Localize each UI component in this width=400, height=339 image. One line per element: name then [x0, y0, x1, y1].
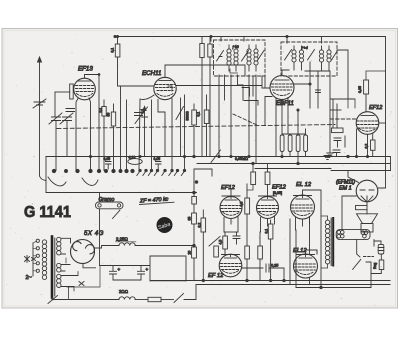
svg-text:EF12: EF12 [221, 185, 236, 191]
capacitor C10 in box [106, 162, 112, 170]
tube EF12 cathode arc [359, 129, 376, 132]
heater wires pair [66, 258, 100, 287]
junction dots misc [89, 35, 368, 164]
wire R15b [267, 164, 269, 197]
mains selector rail [32, 243, 34, 276]
tube EF12 AF1 grid bar [222, 190, 240, 199]
wire R16 [202, 210, 204, 281]
capacitor C16 padder [135, 113, 143, 116]
grid cap EF12 AF1 feed [247, 185, 253, 191]
electrolytic capacitor C7 [296, 135, 300, 152]
resistor R15b [265, 172, 270, 185]
svg-text:0,1: 0,1 [197, 112, 201, 117]
resistor R2 [111, 112, 115, 126]
field coil box [378, 244, 384, 254]
antenna arrowhead [38, 57, 42, 62]
switch contact ticks with dots [137, 169, 186, 175]
wire column x67 lower [66, 121, 68, 157]
IF transformer can T1 dashed box [214, 40, 266, 76]
wire transformer bottom to fuse [52, 298, 55, 300]
wire ECH11 input [118, 85, 155, 87]
IF transformer can T2 dashed box [281, 42, 337, 76]
rectifier anode hook 2 [86, 245, 95, 254]
wire R17 [224, 232, 226, 254]
svg-text:50000: 50000 [186, 111, 190, 120]
svg-text:0,05 MΩ: 0,05 MΩ [235, 157, 248, 161]
wire y110 stub [330, 109, 341, 111]
varicap arrow symbol [142, 109, 148, 157]
wire column x184 [184, 95, 186, 171]
svg-text:Reg: Reg [373, 263, 377, 269]
svg-text:EF12: EF12 [272, 185, 287, 191]
wire EL12a leads [296, 217, 310, 231]
wire R21 [270, 220, 272, 281]
tube EL12a grid dashes [292, 205, 314, 211]
junction dots on buses [202, 279, 322, 288]
gramo terminal left [98, 204, 101, 207]
wire column x104 [103, 100, 105, 171]
wire jog A5 [242, 88, 250, 97]
rectifier 5X4G envelope [71, 240, 95, 264]
resistor R1 [102, 107, 106, 117]
tube ECH11 grid dashes [156, 85, 175, 91]
IF T2 trimmer arrow 1 [285, 50, 315, 61]
tube EBF11 envelope [270, 76, 294, 100]
gramo switch arm [113, 210, 121, 219]
tube EF12 AF2 grid dashes [258, 206, 278, 212]
svg-text:EF13: EF13 [78, 66, 93, 73]
wire EBF11 input left [262, 76, 270, 88]
IF T2 trimmer arrow 2 [332, 51, 338, 61]
wire column x126 [126, 100, 128, 171]
IF T1 trimmer arrow 2 [242, 51, 249, 62]
tube ECH11 cathode arc [157, 94, 173, 97]
tube EF12 AF3 grid dashes [221, 264, 241, 270]
tube ECH11 triode plate mark [168, 86, 172, 91]
trimmer capacitor C1 [49, 113, 62, 124]
wire EL12 right column [310, 217, 318, 285]
wire field coil top [374, 240, 381, 246]
wire column x180 [180, 98, 182, 157]
wire EM11 left [342, 196, 356, 205]
svg-text:+: + [146, 267, 149, 272]
right edge vertical [390, 157, 392, 171]
wire OT primary top [321, 216, 328, 220]
wire column x194 [193, 104, 195, 157]
mains tap circles [36, 239, 39, 272]
wire diode load column [310, 62, 318, 108]
gramo terminal right [117, 204, 120, 207]
switch contact row dots [52, 169, 134, 172]
power transformer core line2 [54, 238, 56, 296]
tube EF13 envelope [74, 78, 96, 100]
tube EF12 (1st audio) envelope [356, 112, 379, 135]
resistor R22 below EM11 [356, 206, 368, 210]
wire jog A2 [238, 75, 244, 100]
output transformer core [330, 218, 332, 266]
fuse slant [48, 296, 58, 304]
wire EF13 cathode lead right [89, 98, 91, 171]
main B+ top bus wire [115, 37, 386, 189]
tube EF12 AF2 envelope [257, 197, 279, 219]
electrolytic C14 [110, 266, 117, 281]
svg-text:4,5: 4,5 [219, 240, 223, 245]
shield box lower [194, 169, 212, 190]
svg-text:EBF11: EBF11 [276, 101, 294, 107]
wire EF13 input [55, 91, 70, 93]
wire column x206 [206, 95, 208, 157]
wire EBF11 diode out [294, 83, 310, 85]
rectifier heater wire [68, 272, 78, 299]
power transformer core [51, 237, 54, 298]
loudspeaker cone [357, 214, 378, 224]
svg-text:0,2: 0,2 [198, 223, 202, 228]
ground bus line 2 [196, 284, 390, 286]
filter choke 2 [119, 297, 135, 300]
svg-text:G 1141: G 1141 [24, 204, 71, 221]
IF T1 coil L2 [234, 45, 238, 71]
switch arm AF [209, 237, 220, 247]
resistor R16 [201, 218, 206, 232]
trimmer arrow C16 [135, 107, 148, 124]
svg-text:4,3 k: 4,3 k [129, 156, 136, 160]
svg-text:5X 4G: 5X 4G [84, 231, 104, 237]
svg-text:[0,35]: [0,35] [273, 191, 282, 195]
tube EL12b cathode arc [297, 272, 314, 275]
tube EBF11 grid dashes [272, 84, 293, 90]
tube EF13 top electrode [78, 80, 91, 82]
tube EF12 AF3 top electrode [225, 257, 237, 259]
resistor R10 plate load [364, 80, 369, 94]
tube EL12b grid dashes [295, 264, 317, 270]
varicap arrowhead [143, 107, 146, 111]
more sections appended below [176, 40, 385, 164]
wire EM11 cathode [366, 202, 368, 206]
resistor R14 between tubes [245, 198, 250, 214]
tube EL12a envelope [291, 195, 315, 219]
wire gramo feed [99, 193, 101, 266]
chassis box lower [150, 256, 186, 281]
power transformer secondary 5V winding [57, 263, 61, 272]
wire detector link [305, 71, 330, 153]
rectifier cathode leads [71, 238, 96, 267]
tube ECH11 top electrode [159, 80, 171, 82]
filter cap feed wire [100, 265, 150, 267]
wire column x117 [118, 37, 121, 171]
ground bus line 1 [151, 280, 390, 282]
antenna lead-in wire [39, 58, 41, 176]
asterisk mark mains [25, 256, 30, 263]
tube EL12b top electrode [299, 257, 312, 259]
tube EL12a grid bar [294, 196, 312, 198]
electrolytic capacitor C5 [280, 135, 284, 152]
short feed wires from top bus [211, 37, 322, 44]
resistor R25 below EF12 [371, 140, 376, 150]
AGC dashed branch [233, 114, 258, 126]
tube EF13 side plate [70, 84, 74, 99]
tube EBF11 grid feed [282, 70, 289, 76]
coupling resistor R11 horizontal [332, 128, 344, 133]
bus third line right [255, 168, 331, 170]
voice coil loop box [336, 230, 370, 240]
trimmer arrow col180 [176, 107, 184, 120]
tube ECH11 envelope [154, 77, 176, 99]
wire EL12 plate to OT [303, 190, 322, 288]
resistor R24 horizontal [148, 297, 161, 301]
wire EM11 top feed [348, 171, 359, 183]
voice coil turns [361, 231, 368, 238]
svg-text:0,05: 0,05 [104, 157, 111, 161]
wire EF12 plate right [379, 122, 386, 124]
wire choke2 to resistor [135, 299, 148, 301]
IF T2 coil L6 [319, 46, 323, 71]
IF T1 trimmer arrow 1 [217, 51, 224, 62]
band switch box bottom edge [46, 192, 197, 194]
resistor R19 [245, 246, 250, 259]
svg-text:0,35: 0,35 [358, 86, 362, 93]
wire jog A3 [230, 69, 238, 73]
tube EF12 AF2 top electrode [262, 199, 274, 201]
electrolytic capacitor C8 [304, 135, 308, 152]
main bus second line [197, 163, 391, 165]
wire column x113 [113, 104, 115, 171]
wire column x55 [54, 92, 56, 116]
wire R14 [246, 184, 248, 230]
svg-text:0,1: 0,1 [265, 229, 269, 234]
power transformer secondary HV winding [57, 237, 61, 255]
field coil loops [378, 248, 384, 251]
wire switch to bus [184, 285, 196, 300]
shield box dot [195, 181, 198, 184]
ground symbol detector [324, 156, 331, 160]
loudspeaker magnet [361, 224, 373, 233]
wire bottom right loop [296, 262, 371, 288]
wire EBF11 cathode step [265, 97, 272, 126]
wire EF12 AF1 leads [224, 217, 238, 233]
tube EL12a cathode arc [294, 213, 311, 216]
IF T1 coil L3 [247, 45, 251, 71]
switch contact dashes [364, 256, 374, 258]
scan speckle texture [6, 32, 395, 305]
svg-text:2,25Ω: 2,25Ω [116, 237, 129, 242]
resistor R12 [192, 213, 197, 224]
band switch box left edge [45, 157, 47, 193]
wire EBF11 leads down [276, 98, 288, 157]
power transformer secondary 6V winding [57, 274, 61, 287]
resistor R18 [214, 246, 219, 257]
AGC dashed extension [330, 118, 357, 120]
resistor R21 [268, 224, 273, 239]
tube EBF11 cathode arc [274, 93, 291, 96]
antenna symbol [33, 99, 46, 108]
wire R23 [371, 254, 381, 274]
svg-text:0,2: 0,2 [365, 144, 369, 149]
svg-text:ƒ+4: ƒ+4 [301, 45, 309, 50]
resistor R7 [192, 110, 197, 125]
output transformer core bar2 [332, 218, 334, 266]
wire antenna into switch box [40, 176, 47, 181]
secondary tap leads [61, 238, 78, 286]
tube EF12 AF2 cathode arc [260, 213, 276, 216]
wire EL12b grid feed [283, 268, 285, 281]
tube EBF11 top electrode [275, 79, 289, 81]
junction dot bottom edge [193, 191, 196, 194]
heater bottom wire [55, 299, 119, 301]
maker logo roundel [157, 217, 173, 233]
wire ECH11 to EBF11 coupling [176, 85, 262, 87]
wire screen column [290, 219, 296, 288]
wire ECH11 left lead [139, 95, 154, 171]
resistor R26 top [192, 197, 197, 205]
wire AF1 plate link [224, 231, 238, 233]
tube EF12 AF2 grid bar [259, 196, 277, 199]
wire column x202 [201, 37, 203, 157]
tube EF13 grid cap wire [85, 75, 100, 171]
resistor R20 [258, 246, 263, 259]
svg-text:EL 12: EL 12 [296, 182, 312, 188]
B+ takeoff wire [95, 246, 120, 249]
tube EF12 AF1 envelope [220, 197, 242, 219]
switch arm output [353, 259, 361, 269]
mains tap leads [33, 241, 36, 270]
resistor R17 [223, 236, 228, 249]
junction dot top bus [114, 35, 116, 37]
wire column x151 [151, 100, 153, 171]
x mark mains [32, 258, 36, 261]
svg-text:0,25: 0,25 [271, 264, 278, 268]
tube EF13 grid dashes [76, 86, 94, 92]
svg-text:+: + [118, 267, 121, 272]
svg-text:EF 12: EF 12 [208, 273, 224, 279]
wire ECH11 leads down [158, 99, 172, 171]
tube EF12 AF1 grid dashes [221, 206, 241, 212]
IF T2 coil L5b [299, 46, 303, 70]
filter choke 1 [119, 243, 135, 246]
wire EF13 cathode lead left [76, 99, 78, 171]
wire column x56 lower [55, 121, 57, 171]
wire electrolytic bottoms [282, 152, 306, 164]
mains switch arm [174, 294, 184, 303]
capacitor C3 slant trimmer [66, 109, 75, 112]
tube EF13 cathode arc [77, 94, 93, 97]
wire IF T1 leads down [219, 75, 265, 164]
component cluster caps [334, 136, 345, 147]
electrolytic capacitor C6 [288, 135, 292, 152]
switch wafer arm 2 [82, 178, 98, 185]
IF T2 coil L5 [292, 46, 296, 70]
main bus top line [46, 156, 391, 158]
trimmer capacitor C2 [60, 113, 73, 124]
resistor R13 [192, 247, 197, 258]
switch wafer arm 1 [48, 177, 66, 186]
wire switch feed [357, 240, 360, 257]
resistor R8 top [200, 44, 204, 58]
rectifier anode hook 1 [73, 242, 81, 251]
wire column x210 [209, 37, 211, 157]
wire R10 to tube [365, 94, 367, 112]
output transformer primary winding [325, 220, 329, 264]
IF T1 trimmer arrow 3 [257, 51, 264, 62]
wire top right drop [337, 50, 348, 99]
wire R15 top [252, 164, 254, 173]
wire EL12b plate link [306, 250, 318, 254]
svg-text:EF12: EF12 [369, 105, 383, 111]
svg-text:65: 65 [188, 217, 192, 221]
svg-text:0,1: 0,1 [99, 108, 103, 113]
tube EM11 tuning eye envelope [356, 180, 378, 202]
resistor R23 [379, 260, 384, 270]
junction dot top bus 2 [210, 35, 212, 37]
tube EF12 AF1 cathode arc [223, 213, 239, 216]
wire jog A1 [224, 75, 226, 100]
IF T1 coil L1 [227, 45, 231, 71]
wire R25 [372, 133, 374, 157]
wire jog A4 [244, 101, 258, 106]
choke 1 underline [116, 241, 137, 243]
B+ rail vertical x194 [193, 193, 195, 281]
wire EM11 left drop [341, 205, 343, 230]
svg-text:ECH11: ECH11 [142, 70, 162, 77]
tube EL12a top electrode [296, 198, 309, 200]
resistor R9b mid [204, 110, 209, 124]
svg-text:2~: 2~ [26, 275, 32, 281]
wire EF12 leads down [357, 129, 368, 157]
svg-text:0,05: 0,05 [154, 157, 161, 161]
wire electrolytic top link [282, 110, 306, 134]
padder oval component [128, 159, 142, 165]
AGC dashed line [57, 125, 335, 129]
svg-text:2Ω Ω: 2Ω Ω [119, 289, 128, 294]
wire EF12 AF2 leads [261, 217, 275, 233]
rectifier heater x mark [79, 282, 84, 286]
bus fourth line right [331, 170, 391, 172]
wire plate line EF12a [330, 98, 355, 100]
tube EF12 grid dashes [357, 121, 378, 128]
electrolytic C15 [138, 266, 145, 281]
IF T1 coil L4 [254, 45, 258, 71]
svg-text:EM 1: EM 1 [339, 186, 352, 192]
svg-text:0,3: 0,3 [240, 202, 244, 207]
tube EF12 AF3 grid bar [222, 255, 240, 257]
svg-text:50: 50 [107, 113, 111, 117]
wire speaker to resistor [366, 210, 368, 214]
gramo pickup box [96, 202, 124, 209]
svg-text:0,1: 0,1 [141, 109, 145, 114]
wire R24 to switch [161, 299, 174, 301]
wire choke1 to rail [135, 245, 194, 247]
wire R10 top [366, 71, 386, 80]
tube ECH11 grid cap wire [165, 65, 245, 77]
coupling capacitor C13 [242, 264, 284, 272]
tube EF12 top electrode [361, 115, 374, 117]
tube EF12 AF3 cathode arc [223, 271, 239, 274]
volume pot arrow [211, 150, 221, 163]
capacitor C4 [316, 90, 321, 93]
capacitor C12 [233, 232, 240, 244]
ground link under caps [113, 279, 141, 281]
junction dot choke feed [193, 244, 195, 246]
ground symbol x330 [327, 153, 333, 157]
tube EL12b envelope [294, 254, 318, 278]
wire R19 [246, 230, 248, 281]
wire OT primary bottom [321, 264, 328, 268]
resistor R9 top [208, 44, 212, 57]
capacitor C11 in box [156, 162, 162, 170]
svg-text:20: 20 [188, 251, 192, 255]
tube EM11 target dash [360, 189, 374, 191]
IF note underline [140, 202, 175, 204]
tube EF12 AF3 envelope [219, 254, 242, 277]
